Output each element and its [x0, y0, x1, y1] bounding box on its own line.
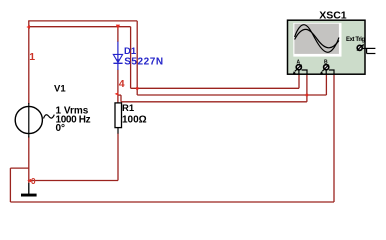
terminal A circle: [296, 65, 301, 70]
resistor R1 bottom stub: [117, 128, 119, 134]
Ext Trig pin upper: [362, 47, 375, 49]
wire ground bottom horizontal to scope B-: [10, 201, 334, 203]
junction crossing A- vertical over wire2: [306, 94, 308, 96]
wire horizontal y=88.3 to scope A+: [131, 87, 299, 89]
wire ground branch vertical left: [9, 168, 11, 202]
V1 sine tilde mark: [44, 115, 55, 119]
diode D1 filled tip: [116, 59, 120, 62]
Ext Trig terminal circle: [357, 45, 362, 50]
wire diode cathode to R1 top (node 4): [117, 70, 119, 104]
terminal B arrowhead: [320, 71, 323, 74]
svg-text:100Ω: 100Ω: [122, 114, 147, 125]
wire vertical x=137 down to A- net: [136, 21, 138, 95]
svg-text:1: 1: [29, 51, 35, 63]
diode D1 triangle: [113, 54, 122, 62]
terminal B minus pin: [329, 70, 334, 75]
svg-text:R1: R1: [122, 103, 135, 114]
wire diode anode from node1 bus: [117, 27, 119, 42]
ground bar: [21, 194, 37, 197]
diode D1 lead: [117, 42, 119, 71]
wire V1 bottom to node0: [28, 137, 30, 184]
terminal A plus pin: [298, 70, 300, 75]
junction arrow node0: [27, 179, 31, 182]
svg-text:S5227N: S5227N: [124, 57, 163, 68]
voltage source V1 circle: [15, 106, 42, 133]
svg-text:0°: 0°: [56, 123, 66, 134]
wire horizontal y=95 to scope B+: [137, 94, 326, 96]
wire vertical up to scope B- pin: [333, 74, 335, 202]
svg-text:Ext Trig: Ext Trig: [346, 37, 366, 43]
svg-text:0: 0: [31, 176, 36, 186]
wire horizontal y=101.8 to scope A-: [121, 101, 307, 103]
resistor R1 body: [115, 103, 122, 128]
wire ground branch horizontal: [10, 167, 28, 169]
wire vertical x=130.6: [130, 27, 132, 89]
Ext Trig pin vertical: [366, 48, 368, 53]
wire node4 step vertical: [120, 95, 122, 102]
terminal B circle: [324, 65, 329, 70]
wire vertical up to scope A+ pin: [298, 74, 300, 88]
Ext Trig arrowhead: [361, 44, 364, 47]
scope trace channel A: [295, 25, 339, 53]
wire vertical up to scope B+ pin: [325, 74, 327, 95]
Ext Trig terminal diagonal: [357, 45, 363, 50]
oscilloscope screen white frame: [293, 23, 341, 57]
junction arrow diode anode: [116, 25, 120, 29]
oscilloscope XSC1 body: [288, 20, 366, 74]
terminal A arrowhead: [293, 71, 296, 74]
svg-text:XSC1: XSC1: [319, 10, 347, 22]
wire node1 top horizontal upper: [28, 20, 137, 22]
terminal B plus pin: [325, 70, 327, 75]
scope trace channel B: [295, 29, 339, 47]
wire vertical up to scope A- pin: [306, 74, 308, 102]
junction arrow node4: [115, 92, 119, 95]
wire horizontal node0 to R1 bottom: [29, 180, 118, 182]
svg-text:V1: V1: [54, 83, 66, 94]
ground lead: [28, 183, 30, 194]
Ext Trig pin lower: [367, 53, 376, 55]
svg-text:4: 4: [119, 78, 125, 90]
wire node4 step horizontal: [118, 94, 121, 96]
wire node1 top horizontal lower: [29, 26, 131, 28]
oscilloscope screen gray: [294, 24, 339, 54]
diode D1 cathode bar: [113, 62, 122, 64]
wire R1 bottom down: [117, 133, 119, 180]
junction arrow node1 at V1 top: [26, 25, 30, 29]
wire node1 vertical from V1 top: [28, 21, 30, 104]
svg-text:D1: D1: [124, 46, 137, 57]
V1 pin line through circle: [28, 103, 30, 138]
junction crossing wire2 over wire1: [136, 87, 138, 89]
terminal B diagonal: [322, 65, 329, 72]
terminal A minus pin: [302, 70, 307, 75]
terminal A diagonal: [295, 65, 302, 72]
